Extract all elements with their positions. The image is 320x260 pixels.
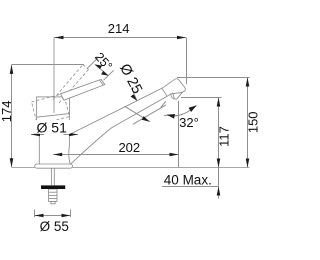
svg-text:214: 214 [108, 21, 130, 36]
svg-text:117: 117 [216, 126, 231, 147]
svg-text:Ø 51: Ø 51 [37, 119, 68, 135]
svg-text:174: 174 [0, 101, 14, 123]
svg-text:202: 202 [118, 140, 140, 155]
svg-text:32°: 32° [179, 115, 199, 130]
svg-text:40 Max.: 40 Max. [164, 173, 212, 188]
svg-text:Ø 55: Ø 55 [40, 219, 69, 234]
svg-text:150: 150 [245, 111, 260, 133]
